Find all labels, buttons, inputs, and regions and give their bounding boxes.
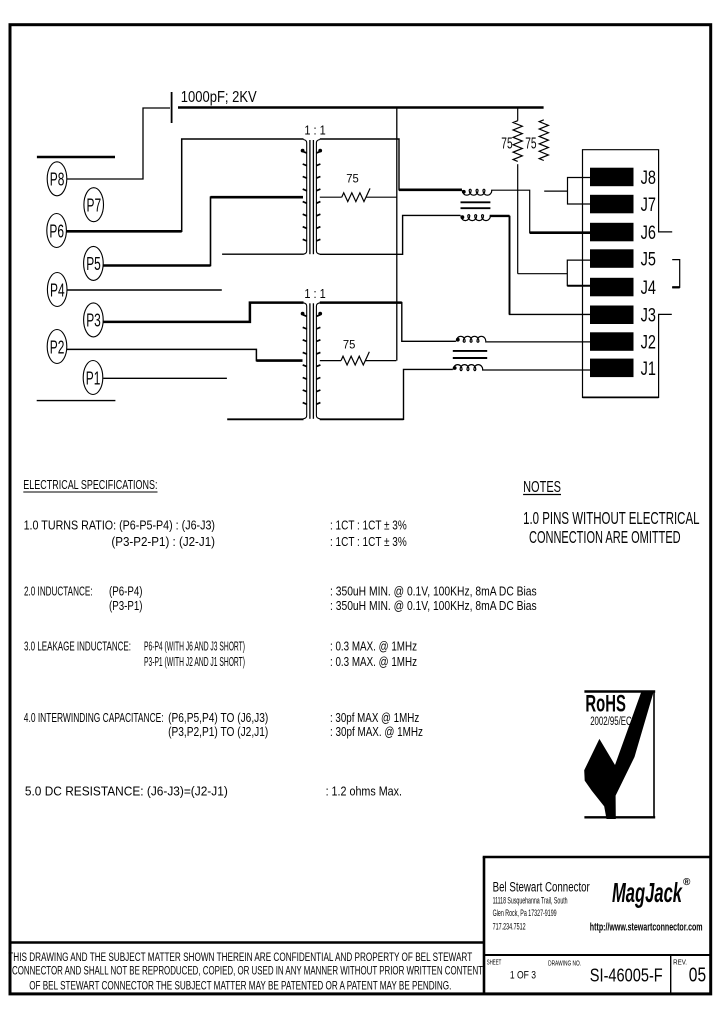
- svg-text:(P3-P1): (P3-P1): [109, 599, 143, 613]
- heading NOTES: [523, 479, 561, 496]
- svg-text:(P6-P4): (P6-P4): [109, 584, 143, 598]
- MagJack logo: [612, 877, 691, 908]
- resistor R4 75 (bus end, to J5/J4 stub): [539, 120, 548, 161]
- svg-text:J8: J8: [641, 168, 656, 189]
- company address: [493, 896, 568, 932]
- svg-text:P3: P3: [86, 310, 101, 331]
- spec 4.0 interwinding capacitance: [24, 711, 423, 739]
- RoHS checkmark: [584, 691, 654, 819]
- RoHS logo text: [585, 691, 631, 729]
- heading ELECTRICAL SPECIFICATIONS: [23, 478, 157, 492]
- svg-text:P8: P8: [50, 169, 65, 190]
- wire P6 to T1 primary top: [67, 139, 304, 231]
- wire T2 secondary top to choke L2a: [320, 303, 456, 342]
- resistor R2 label 75: [343, 338, 356, 352]
- capacitor C1 label 1000pF; 2KV: [181, 89, 257, 106]
- sheet label: [487, 959, 536, 981]
- svg-text:: 0.3 MAX. @ 1MHz: : 0.3 MAX. @ 1MHz: [330, 639, 417, 653]
- wire: T2 primary bottom lead: [227, 418, 303, 420]
- svg-text:P6: P6: [49, 220, 64, 241]
- svg-text:3.0 LEAKAGE INDUCTANCE:: 3.0 LEAKAGE INDUCTANCE:: [24, 639, 131, 653]
- wire T1 secondary bottom to choke L1b: [320, 215, 461, 254]
- svg-text:4.0 INTERWINDING CAPACITANCE:: 4.0 INTERWINDING CAPACITANCE:: [24, 711, 164, 725]
- node bracket J5/J4 right side: [672, 260, 680, 288]
- svg-text:P2: P2: [50, 336, 65, 357]
- wire P8 to capacitor: [67, 108, 170, 179]
- node bracket J8/J7: [568, 178, 591, 205]
- svg-text:Glen Rock, Pa 17327-9199: Glen Rock, Pa 17327-9199: [493, 908, 557, 918]
- svg-text:Bel Stewart Connector: Bel Stewart Connector: [493, 880, 590, 896]
- pin P4: [47, 273, 67, 307]
- wire stub to J8/J7 bracket: [544, 190, 567, 192]
- svg-text:75: 75: [346, 172, 359, 186]
- svg-text:75: 75: [525, 135, 536, 152]
- connector pin J3: [590, 306, 656, 327]
- capacitor C1 1000pF 2KV plate: [171, 92, 173, 123]
- svg-text:THIS DRAWING AND THE SUBJECT M: THIS DRAWING AND THE SUBJECT MATTER SHOW…: [8, 950, 472, 964]
- svg-text:CONNECTION ARE OMITTED: CONNECTION ARE OMITTED: [529, 527, 681, 547]
- transformer T2 ratio label 1 : 1: [304, 287, 325, 301]
- svg-text:: 30pf MAX. @ 1MHz: : 30pf MAX. @ 1MHz: [330, 725, 423, 739]
- wire T2 secondary bottom to choke L2b: [320, 369, 453, 419]
- svg-text:: 1CT : 1CT ± 3%: : 1CT : 1CT ± 3%: [330, 519, 407, 533]
- svg-text:MagJack: MagJack: [612, 877, 683, 908]
- wire: T1 primary bottom lead: [222, 253, 303, 255]
- choke L1 winding b: [461, 215, 491, 221]
- svg-text:P1: P1: [86, 367, 101, 388]
- disclaimer text: [8, 950, 483, 993]
- svg-text:(P6,P5,P4) TO (J6,J3): (P6,P5,P4) TO (J6,J3): [168, 711, 268, 725]
- pin P3: [84, 303, 104, 337]
- svg-text:11118 Susquehanna Trail, South: 11118 Susquehanna Trail, South: [493, 896, 568, 906]
- wire P4 stub: [67, 289, 222, 291]
- svg-text:REV.: REV.: [673, 959, 687, 966]
- svg-text:75: 75: [343, 338, 356, 352]
- svg-text:SI-46005-F: SI-46005-F: [590, 965, 663, 986]
- svg-text:: 0.3 MAX. @ 1MHz: : 0.3 MAX. @ 1MHz: [330, 655, 417, 669]
- connector pin J6: [590, 223, 656, 244]
- svg-text:: 30pf MAX @ 1MHz: : 30pf MAX @ 1MHz: [330, 711, 419, 725]
- spec 1.0 turns ratio: [24, 519, 407, 550]
- svg-text:J6: J6: [641, 223, 656, 244]
- spec 2.0 inductance: [24, 584, 537, 613]
- svg-text:1.0 TURNS RATIO: (P6-P5-P4) :: 1.0 TURNS RATIO: (P6-P5-P4) : (J6-J3): [24, 519, 215, 533]
- svg-text:DRAWING NO.: DRAWING NO.: [548, 958, 581, 967]
- svg-text:J3: J3: [641, 306, 656, 327]
- svg-text:1 : 1: 1 : 1: [304, 124, 325, 138]
- transformer T2: [301, 303, 322, 419]
- svg-text:P4: P4: [50, 279, 65, 300]
- choke L1 core: [461, 202, 491, 208]
- svg-text:J1: J1: [641, 359, 656, 380]
- wire choke L1b to J3: [490, 216, 590, 315]
- resistor R1 label 75: [346, 172, 359, 186]
- svg-text:P7: P7: [87, 195, 102, 216]
- connector pin J1: [590, 359, 656, 380]
- connector pin J8: [590, 168, 656, 189]
- url: [590, 921, 703, 933]
- wire: top bus from capacitor: [178, 106, 544, 109]
- resistor R3 75 (bus to J8/J7): [513, 108, 567, 274]
- connector pin J2: [590, 332, 656, 353]
- spec 5.0 dc resistance: [25, 784, 402, 798]
- svg-text:2.0 INDUCTANCE:: 2.0 INDUCTANCE:: [24, 584, 93, 598]
- resistor R3 label 75: [501, 135, 512, 152]
- title block frame: [483, 857, 711, 993]
- transformer T1 ratio label 1 : 1: [304, 124, 325, 138]
- choke L2 core: [453, 351, 487, 358]
- svg-text:SHEET: SHEET: [487, 959, 502, 966]
- pin P5: [84, 246, 104, 280]
- pin P6: [47, 214, 67, 248]
- pin P2: [47, 330, 67, 364]
- wire T1 secondary top to choke L1a: [320, 139, 462, 190]
- connector pin J7: [590, 195, 656, 216]
- wire: top-left stub: [37, 156, 115, 158]
- RoHS logo box: [584, 692, 655, 818]
- svg-text:5.0 DC RESISTANCE: (J6-J3)=(J2: 5.0 DC RESISTANCE: (J6-J3)=(J2-J1): [25, 784, 228, 798]
- drawing no label: [548, 958, 663, 985]
- svg-text:2002/95/EC: 2002/95/EC: [590, 714, 632, 728]
- wire P2 to T2 primary center tap: [67, 349, 303, 360]
- wire P3 to T2 primary top: [103, 303, 303, 322]
- wire: bottom-left stub: [37, 400, 116, 402]
- connector pin J5: [590, 249, 656, 270]
- connector J outline: [583, 150, 673, 398]
- svg-text:: 350uH MIN. @ 0.1V, 100KHz, 8: : 350uH MIN. @ 0.1V, 100KHz, 8mA DC Bias: [330, 599, 537, 613]
- choke L2 winding b: [453, 365, 483, 371]
- wire P1 stub: [103, 377, 227, 379]
- pin P1: [83, 361, 103, 395]
- wire choke L2a to J2: [485, 341, 590, 343]
- wire P5 to T1 primary center tap: [103, 197, 303, 265]
- pin P7: [84, 188, 104, 222]
- svg-text:P6-P4 (WITH J6 AND J3 SHORT): P6-P4 (WITH J6 AND J3 SHORT): [144, 639, 245, 653]
- resistor R4 label 75: [525, 135, 536, 152]
- pin P8: [47, 162, 67, 196]
- svg-text:J5: J5: [641, 250, 656, 271]
- svg-text:CONNECTOR AND SHALL NOT BE REP: CONNECTOR AND SHALL NOT BE REPRODUCED, C…: [12, 964, 483, 978]
- svg-text:1 : 1: 1 : 1: [304, 287, 325, 301]
- svg-text:P3-P1 (WITH J2 AND J1 SHORT): P3-P1 (WITH J2 AND J1 SHORT): [144, 655, 245, 669]
- choke L1 winding a: [462, 189, 492, 195]
- svg-text:: 350uH MIN. @ 0.1V, 100KHz, 8: : 350uH MIN. @ 0.1V, 100KHz, 8mA DC Bias: [330, 584, 537, 598]
- wire choke L1a to J6: [491, 190, 590, 233]
- note 1.0 pins without electrical connection are omitted: [523, 508, 700, 547]
- svg-text:ELECTRICAL SPECIFICATIONS:: ELECTRICAL SPECIFICATIONS:: [23, 478, 157, 492]
- svg-text:(P3,P2,P1) TO (J2,J1): (P3,P2,P1) TO (J2,J1): [168, 725, 268, 739]
- svg-text:http://www.stewartconnector.co: http://www.stewartconnector.com: [590, 921, 703, 933]
- svg-text:J2: J2: [641, 333, 656, 354]
- wire: bus vertical drop to termination node: [396, 108, 398, 361]
- svg-text:1.0 PINS WITHOUT ELECTRICAL: 1.0 PINS WITHOUT ELECTRICAL: [523, 508, 700, 528]
- company name Bel Stewart Connector: [493, 880, 590, 896]
- svg-text:P5: P5: [86, 253, 101, 274]
- wire choke L2b to J1: [482, 369, 590, 371]
- svg-text:NOTES: NOTES: [523, 479, 561, 496]
- svg-text:®: ®: [683, 877, 691, 888]
- svg-text:05: 05: [689, 965, 706, 987]
- svg-text:OF BEL STEWART CONNECTOR THE: OF BEL STEWART CONNECTOR THE SUBJECT MAT…: [29, 979, 451, 993]
- svg-text:1000pF; 2KV: 1000pF; 2KV: [181, 89, 257, 106]
- svg-text:75: 75: [501, 135, 512, 152]
- transformer T1: [301, 140, 322, 255]
- svg-text:1 OF 3: 1 OF 3: [510, 969, 536, 981]
- rev label: [673, 959, 706, 986]
- svg-text:J7: J7: [641, 195, 656, 216]
- resistor R1 75 (T1 center tap): [320, 188, 397, 201]
- spec 3.0 leakage inductance: [24, 639, 417, 669]
- choke L2 winding a: [456, 336, 486, 342]
- resistor R2 75 (T2 center tap): [320, 352, 397, 365]
- svg-text:: 1CT : 1CT ± 3%: : 1CT : 1CT ± 3%: [330, 535, 407, 549]
- svg-text:717.234.7512: 717.234.7512: [493, 922, 526, 932]
- node bracket J5/J4: [567, 260, 590, 286]
- disclaimer box: [10, 941, 484, 944]
- svg-text:: 1.2 ohms Max.: : 1.2 ohms Max.: [326, 784, 402, 798]
- connector pin J4: [590, 278, 656, 299]
- svg-text:J4: J4: [641, 278, 657, 299]
- svg-text:(P3-P2-P1) : (J2-J1): (P3-P2-P1) : (J2-J1): [111, 535, 215, 549]
